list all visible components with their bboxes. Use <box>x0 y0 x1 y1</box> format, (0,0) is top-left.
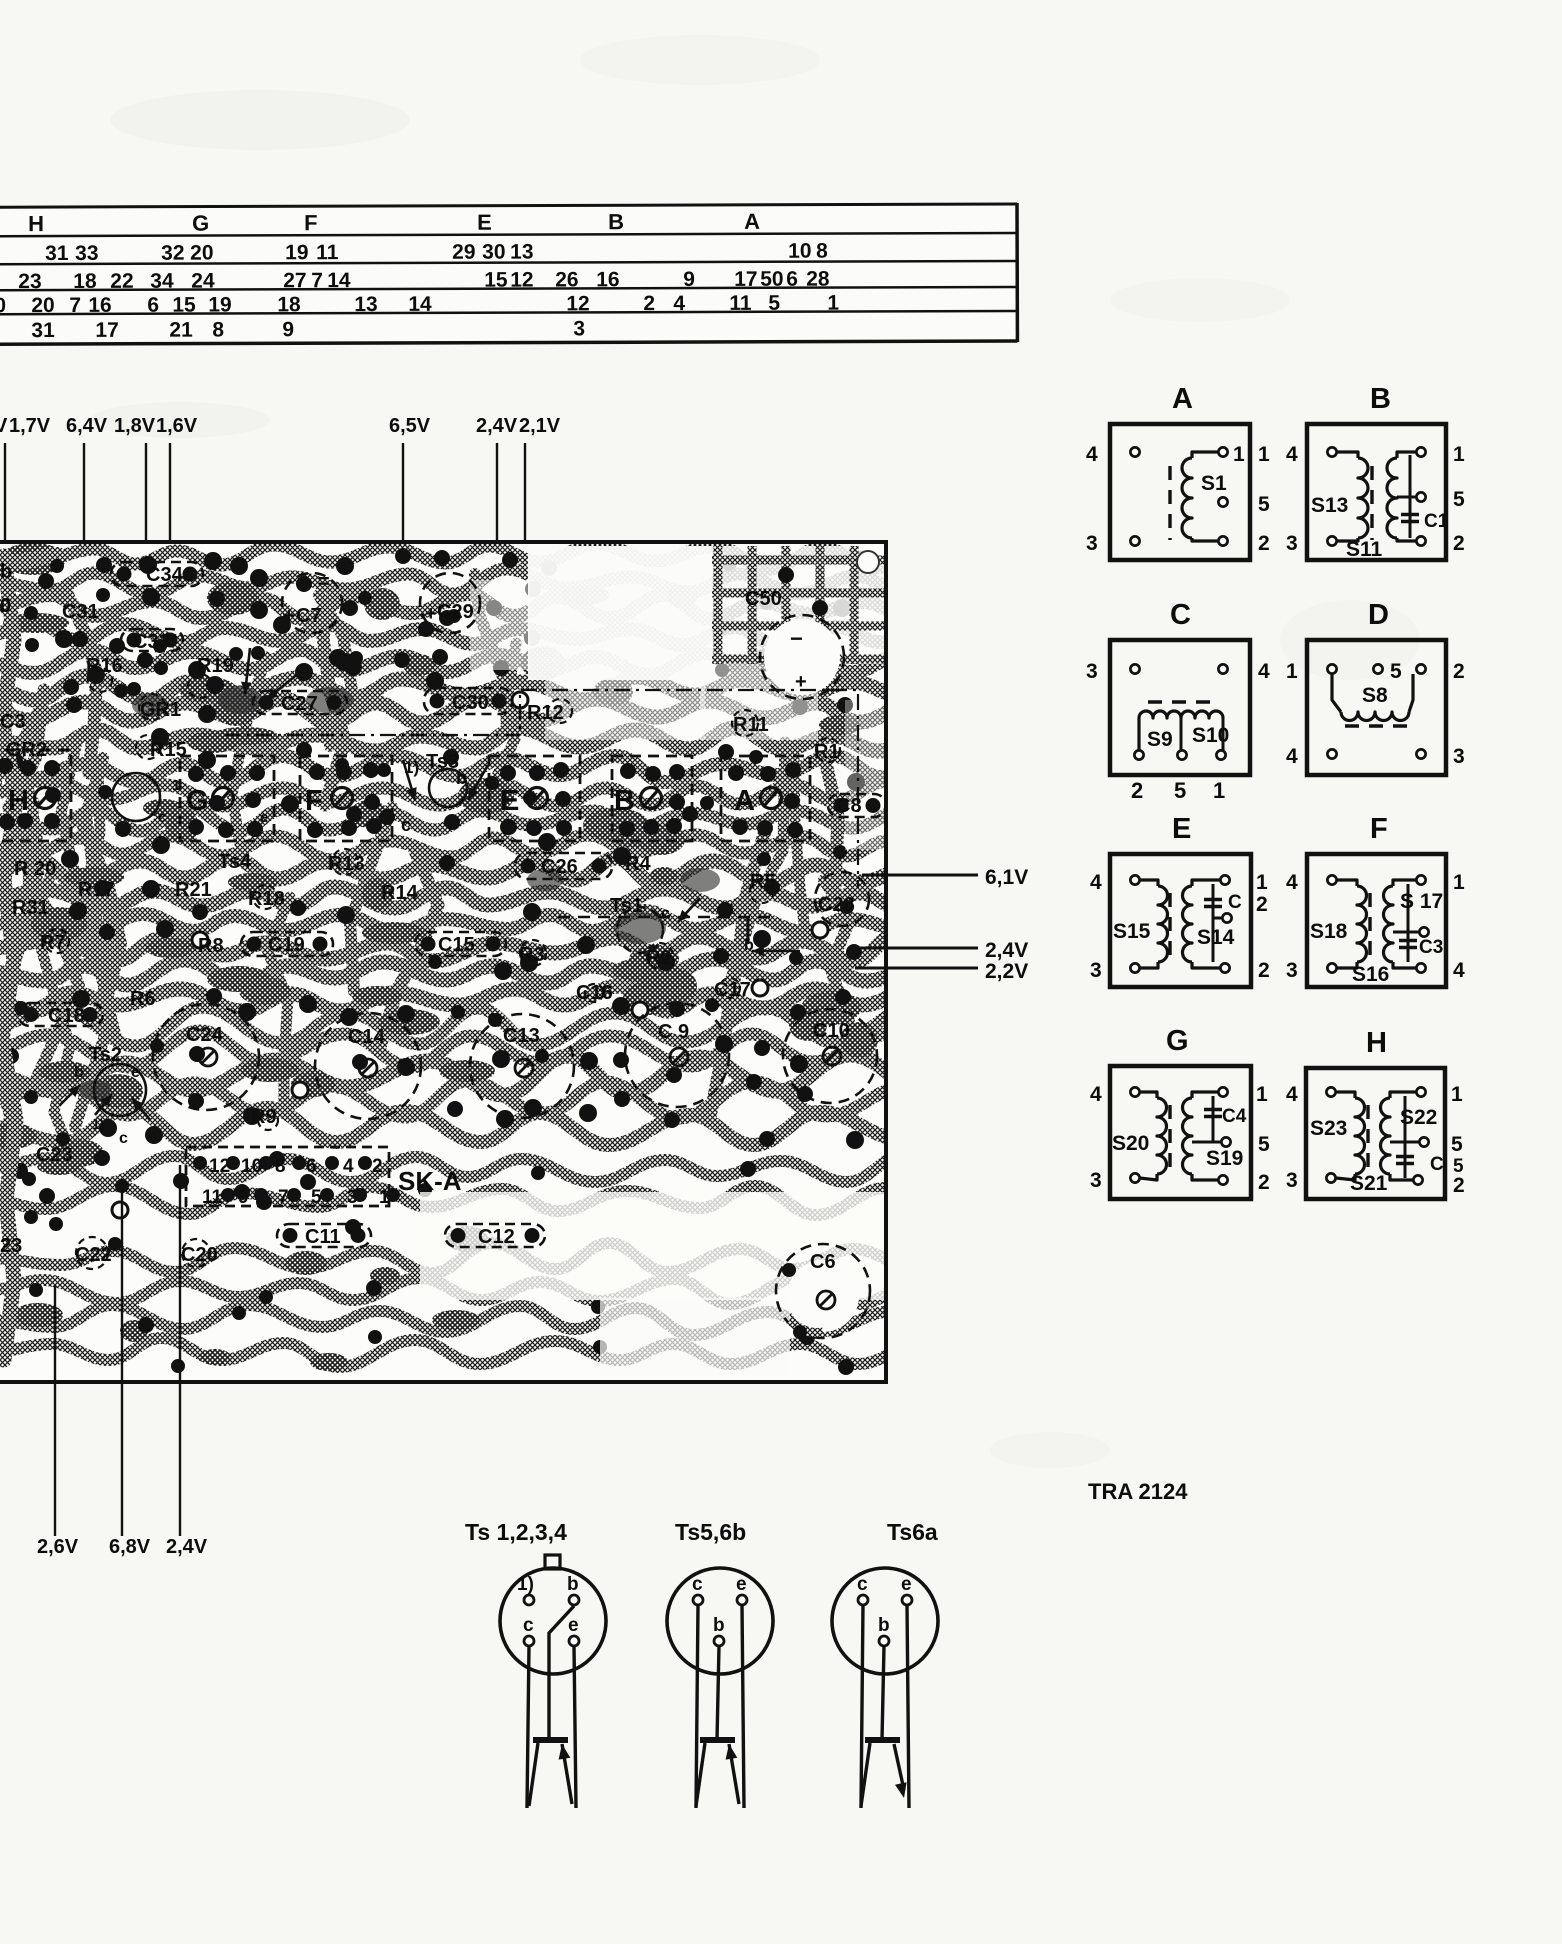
svg-text:31: 31 <box>45 242 69 265</box>
svg-text:c: c <box>523 1615 534 1636</box>
svg-text:C20: C20 <box>181 1244 218 1266</box>
svg-text:33: 33 <box>75 242 98 265</box>
svg-text:5: 5 <box>1453 488 1465 511</box>
svg-text:S14: S14 <box>1197 926 1235 949</box>
svg-text:4: 4 <box>673 292 685 315</box>
svg-text:R2: R2 <box>646 947 672 969</box>
svg-text:3: 3 <box>1086 532 1098 555</box>
svg-text:C29: C29 <box>437 601 474 623</box>
svg-text:20: 20 <box>31 294 54 317</box>
svg-text:S18: S18 <box>1310 920 1348 943</box>
svg-text:4: 4 <box>1090 871 1102 894</box>
svg-text:31: 31 <box>31 319 55 342</box>
svg-text:6,5V: 6,5V <box>389 415 431 437</box>
svg-text:S23: S23 <box>1310 1117 1347 1140</box>
svg-text:G: G <box>192 211 209 236</box>
svg-text:C13: C13 <box>503 1025 540 1047</box>
svg-text:3: 3 <box>1286 959 1298 982</box>
svg-text:b: b <box>567 1574 579 1595</box>
svg-text:C24: C24 <box>186 1024 224 1046</box>
svg-text:2: 2 <box>1258 532 1270 555</box>
svg-text:S16: S16 <box>1352 963 1389 986</box>
svg-text:C50: C50 <box>745 588 782 610</box>
svg-text:5: 5 <box>1258 493 1270 516</box>
svg-text:R5: R5 <box>750 871 776 893</box>
svg-text:e: e <box>131 1064 140 1081</box>
svg-text:Ts2: Ts2 <box>89 1044 122 1066</box>
svg-text:2: 2 <box>1453 532 1465 555</box>
svg-text:2,1V: 2,1V <box>519 415 561 437</box>
svg-text:R13: R13 <box>328 853 365 875</box>
svg-text:2: 2 <box>1453 660 1465 683</box>
svg-text:C12: C12 <box>478 1226 515 1248</box>
svg-text:C4: C4 <box>1222 1106 1247 1127</box>
svg-text:S13: S13 <box>1311 494 1348 517</box>
svg-text:R1: R1 <box>814 741 840 763</box>
svg-text:c: c <box>692 1574 703 1595</box>
svg-text:1: 1 <box>1453 871 1465 894</box>
svg-text:17: 17 <box>734 268 757 291</box>
svg-text:6,4V: 6,4V <box>66 415 108 437</box>
svg-text:1: 1 <box>1213 778 1225 803</box>
svg-text:1: 1 <box>1256 871 1268 894</box>
svg-text:27: 27 <box>283 269 306 292</box>
svg-text:C18: C18 <box>48 1005 85 1027</box>
svg-text:22: 22 <box>110 270 133 293</box>
svg-text:2,4V: 2,4V <box>166 1536 208 1558</box>
svg-text:C27: C27 <box>281 693 318 715</box>
svg-text:S9: S9 <box>1147 728 1173 751</box>
svg-text:GR2: GR2 <box>6 739 47 761</box>
svg-text:26: 26 <box>555 268 578 291</box>
svg-text:C28: C28 <box>818 894 855 916</box>
svg-text:e: e <box>260 809 268 826</box>
svg-text:4: 4 <box>1286 443 1298 466</box>
svg-text:2: 2 <box>1256 893 1268 916</box>
svg-text:9: 9 <box>282 318 294 341</box>
svg-text:12: 12 <box>566 292 589 315</box>
svg-text:A: A <box>734 785 755 817</box>
svg-text:e: e <box>901 1574 912 1595</box>
svg-text:1,6V: 1,6V <box>156 415 198 437</box>
svg-text:2,4V: 2,4V <box>985 939 1028 962</box>
svg-text:S8: S8 <box>1362 684 1388 707</box>
svg-text:C33: C33 <box>133 631 170 653</box>
svg-text:23: 23 <box>18 270 41 293</box>
svg-text:E: E <box>477 210 492 235</box>
svg-text:20: 20 <box>190 242 213 265</box>
svg-text:S10: S10 <box>1192 724 1229 747</box>
svg-text:R12: R12 <box>527 702 564 724</box>
svg-text:7: 7 <box>278 1187 289 1208</box>
svg-text:S20: S20 <box>1112 1132 1149 1155</box>
svg-text:C31: C31 <box>62 601 99 623</box>
svg-text:H: H <box>8 785 29 817</box>
svg-text:5: 5 <box>1390 660 1402 683</box>
svg-text:R4: R4 <box>625 853 651 875</box>
svg-text:c: c <box>401 815 411 835</box>
svg-text:F: F <box>304 210 318 235</box>
svg-text:4: 4 <box>1258 660 1270 683</box>
svg-text:6: 6 <box>306 1156 317 1177</box>
svg-text:4: 4 <box>1286 745 1298 768</box>
svg-text:C23: C23 <box>36 1144 73 1166</box>
svg-text:R11: R11 <box>733 714 769 736</box>
svg-text:Ts6a: Ts6a <box>887 1519 938 1545</box>
svg-text:1): 1) <box>92 1116 104 1132</box>
svg-text:S19: S19 <box>1206 1147 1243 1170</box>
svg-text:6: 6 <box>786 268 798 291</box>
svg-text:R14: R14 <box>381 882 419 904</box>
svg-text:11: 11 <box>202 1187 223 1208</box>
svg-text:S1: S1 <box>1201 472 1227 495</box>
svg-text:15: 15 <box>172 294 196 317</box>
svg-text:TRA 2124: TRA 2124 <box>1088 1479 1188 1504</box>
svg-text:2: 2 <box>1453 1174 1465 1197</box>
svg-text:5: 5 <box>1451 1133 1463 1156</box>
svg-text:E: E <box>1172 813 1191 845</box>
svg-text:c: c <box>661 905 670 922</box>
svg-text:C14: C14 <box>348 1026 386 1048</box>
svg-text:3: 3 <box>1286 532 1298 555</box>
svg-text:28: 28 <box>806 268 830 291</box>
svg-text:1: 1 <box>172 777 180 794</box>
svg-text:3: 3 <box>1453 745 1465 768</box>
svg-text:C: C <box>1170 599 1191 631</box>
svg-text:5: 5 <box>1258 1133 1270 1156</box>
svg-text:18: 18 <box>73 270 97 293</box>
svg-text:11: 11 <box>729 292 752 315</box>
svg-text:16: 16 <box>88 294 111 317</box>
svg-text:24: 24 <box>191 270 215 293</box>
svg-text:R18: R18 <box>248 888 285 910</box>
svg-text:R15: R15 <box>150 739 187 761</box>
svg-text:b: b <box>0 561 12 583</box>
svg-text:1): 1) <box>404 758 419 777</box>
svg-text:C19: C19 <box>268 934 305 956</box>
svg-text:34: 34 <box>150 270 174 293</box>
svg-text:3: 3 <box>1086 660 1098 683</box>
svg-text:2: 2 <box>372 1156 383 1177</box>
svg-text:C: C <box>1430 1154 1444 1175</box>
svg-text:0: 0 <box>0 294 6 317</box>
svg-text:3: 3 <box>1286 1169 1298 1192</box>
svg-text:c: c <box>857 1574 868 1595</box>
svg-text:1: 1 <box>1258 443 1270 466</box>
svg-text:b: b <box>878 1615 890 1636</box>
svg-text:C: C <box>1228 892 1242 913</box>
svg-text:C30: C30 <box>452 692 489 714</box>
svg-text:S21: S21 <box>1350 1172 1388 1195</box>
svg-text:E: E <box>500 785 519 817</box>
svg-text:14: 14 <box>408 293 432 316</box>
svg-text:R21: R21 <box>175 879 212 901</box>
svg-text:5: 5 <box>311 1187 322 1208</box>
svg-text:8: 8 <box>212 318 224 341</box>
svg-text:30: 30 <box>482 241 505 264</box>
svg-text:D: D <box>1368 599 1389 631</box>
svg-text:Ts1: Ts1 <box>610 895 643 917</box>
svg-text:c: c <box>158 809 166 826</box>
svg-text:7: 7 <box>69 294 81 317</box>
svg-text:15: 15 <box>484 269 508 292</box>
svg-text:4: 4 <box>343 1156 354 1177</box>
svg-text:13: 13 <box>510 241 533 264</box>
svg-text:R17: R17 <box>78 879 115 901</box>
svg-text:GR1: GR1 <box>140 699 181 721</box>
svg-text:F: F <box>305 785 323 817</box>
svg-text:e: e <box>568 1615 579 1636</box>
svg-text:A: A <box>744 209 760 234</box>
svg-text:1: 1 <box>827 292 839 315</box>
svg-text:1: 1 <box>1233 443 1245 466</box>
svg-text:C1: C1 <box>1424 511 1449 532</box>
svg-text:9: 9 <box>238 1187 249 1208</box>
svg-text:18: 18 <box>277 293 301 316</box>
svg-text:32: 32 <box>161 242 184 265</box>
svg-text:b: b <box>456 768 467 788</box>
svg-text:−: − <box>790 626 803 651</box>
svg-text:B: B <box>608 209 624 234</box>
svg-text:Ts5,6b: Ts5,6b <box>675 1519 746 1545</box>
svg-text:14: 14 <box>327 269 351 292</box>
svg-text:9: 9 <box>683 268 695 291</box>
svg-text:29: 29 <box>452 241 475 264</box>
svg-text:8: 8 <box>816 240 828 263</box>
svg-text:3: 3 <box>1090 1169 1102 1192</box>
svg-text:e: e <box>736 1574 747 1595</box>
svg-text:50: 50 <box>760 268 783 291</box>
svg-text:4: 4 <box>1453 959 1465 982</box>
svg-text:C10: C10 <box>813 1020 850 1042</box>
svg-text:H: H <box>28 211 44 236</box>
svg-text:C6: C6 <box>810 1251 836 1273</box>
svg-text:R19: R19 <box>197 655 234 677</box>
svg-text:b: b <box>74 1064 84 1081</box>
svg-text:C3: C3 <box>0 711 26 733</box>
svg-text:21: 21 <box>169 319 193 342</box>
svg-text:C 9: C 9 <box>658 1021 689 1043</box>
svg-text:R8: R8 <box>198 935 224 957</box>
svg-text:1: 1 <box>727 901 735 918</box>
svg-text:C17: C17 <box>714 979 751 1001</box>
svg-text:8: 8 <box>275 1156 286 1177</box>
svg-text:S 17: S 17 <box>1400 890 1443 913</box>
svg-text:C3: C3 <box>1419 937 1443 958</box>
svg-text:2,4V: 2,4V <box>476 415 518 437</box>
svg-text:10: 10 <box>241 1156 262 1177</box>
svg-text:1,8V: 1,8V <box>114 415 156 437</box>
svg-text:C15: C15 <box>438 934 475 956</box>
svg-text:16: 16 <box>596 268 619 291</box>
svg-text:R6: R6 <box>130 988 156 1010</box>
svg-text:Ts4: Ts4 <box>218 851 252 873</box>
svg-text:C22: C22 <box>75 1244 112 1266</box>
svg-text:7: 7 <box>311 269 323 292</box>
svg-text:4: 4 <box>1286 871 1298 894</box>
svg-text:R3: R3 <box>519 944 545 966</box>
svg-text:5: 5 <box>768 292 780 315</box>
svg-text:R 20: R 20 <box>14 858 56 880</box>
svg-text:4: 4 <box>1090 1083 1102 1106</box>
svg-text:b: b <box>713 1615 725 1636</box>
svg-text:11: 11 <box>316 241 339 264</box>
svg-text:A: A <box>1172 383 1193 415</box>
svg-text:13: 13 <box>354 293 377 316</box>
svg-text:=: = <box>318 571 330 593</box>
svg-text:3: 3 <box>573 317 585 340</box>
svg-text:23: 23 <box>0 1235 22 1257</box>
svg-text:1,7V: 1,7V <box>9 415 51 437</box>
svg-text:4: 4 <box>1286 1083 1298 1106</box>
svg-text:b: b <box>744 937 754 954</box>
svg-text:C26: C26 <box>541 856 578 878</box>
svg-text:1: 1 <box>1451 1083 1463 1106</box>
svg-text:c: c <box>119 1130 128 1147</box>
svg-text:R31: R31 <box>12 897 49 919</box>
svg-text:R7: R7 <box>40 932 66 954</box>
svg-text:12: 12 <box>510 269 533 292</box>
svg-text:4: 4 <box>1086 443 1098 466</box>
svg-text:2,2V: 2,2V <box>985 960 1028 983</box>
svg-text:2: 2 <box>1131 778 1143 803</box>
svg-text:F: F <box>1370 813 1388 845</box>
svg-text:SK-A: SK-A <box>398 1166 462 1196</box>
svg-text:C7: C7 <box>296 605 322 627</box>
svg-text:C34: C34 <box>146 564 184 586</box>
svg-text:H: H <box>1366 1027 1387 1059</box>
svg-text:0: 0 <box>0 595 11 617</box>
svg-text:10: 10 <box>788 240 811 263</box>
svg-text:S15: S15 <box>1113 920 1151 943</box>
svg-text:V: V <box>0 415 8 437</box>
svg-text:1): 1) <box>517 1574 534 1595</box>
svg-text:G: G <box>186 785 209 817</box>
svg-text:B: B <box>1370 383 1391 415</box>
svg-text:R9: R9 <box>251 1106 277 1128</box>
svg-text:17: 17 <box>95 319 118 342</box>
svg-text:C11: C11 <box>305 1226 341 1248</box>
svg-text:Ts3: Ts3 <box>426 751 459 773</box>
svg-text:2: 2 <box>1258 1171 1270 1194</box>
svg-text:C16: C16 <box>576 982 613 1004</box>
svg-text:1: 1 <box>1286 660 1298 683</box>
svg-text:R16: R16 <box>86 655 123 677</box>
svg-text:6,1V: 6,1V <box>985 866 1028 889</box>
svg-text:3: 3 <box>1090 959 1102 982</box>
svg-text:2: 2 <box>1258 959 1270 982</box>
svg-text:B: B <box>614 785 635 817</box>
svg-text:6,8V: 6,8V <box>109 1536 151 1558</box>
svg-text:+: + <box>425 603 437 625</box>
svg-text:5: 5 <box>1174 778 1186 803</box>
svg-text:6: 6 <box>147 294 159 317</box>
svg-text:S11: S11 <box>1346 538 1383 561</box>
svg-text:19: 19 <box>285 241 308 264</box>
svg-text:+: + <box>283 605 295 627</box>
svg-text:1: 1 <box>1453 443 1465 466</box>
svg-text:G: G <box>1166 1025 1189 1057</box>
svg-text:Ts 1,2,3,4: Ts 1,2,3,4 <box>465 1519 567 1545</box>
svg-text:1: 1 <box>1256 1083 1268 1106</box>
svg-text:S22: S22 <box>1400 1106 1437 1129</box>
svg-text:2,6V: 2,6V <box>37 1536 79 1558</box>
svg-text:2: 2 <box>643 292 655 315</box>
svg-text:19: 19 <box>208 293 231 316</box>
